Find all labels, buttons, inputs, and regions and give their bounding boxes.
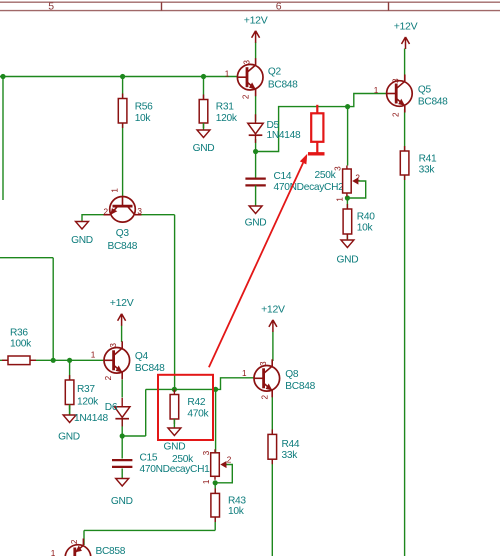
pin 1 of Q2 xyxy=(225,69,230,78)
wire R56 branch to Q3 base xyxy=(122,77,124,197)
svg-text:BC848: BC848 xyxy=(418,96,448,107)
svg-text:2: 2 xyxy=(227,456,232,465)
svg-text:BC848: BC848 xyxy=(135,363,165,374)
annotation arrow to moved resistor xyxy=(209,154,307,367)
junction node R37 top xyxy=(67,358,72,363)
pin 3 of Q3 xyxy=(137,207,142,216)
svg-text:10k: 10k xyxy=(357,223,374,234)
wire junction down to pot RV CH1 xyxy=(215,389,217,452)
svg-text:2: 2 xyxy=(355,174,360,183)
wire Q8 emitter to R44 xyxy=(271,392,273,435)
svg-text:1: 1 xyxy=(111,188,120,193)
svg-text:GND: GND xyxy=(245,218,267,229)
resistor R56 xyxy=(118,94,153,129)
power +12V Q5 xyxy=(394,20,418,49)
sheet column label 5 xyxy=(48,1,54,13)
wire pot CH1 to R43 xyxy=(214,483,216,494)
pin 3 of Q8 xyxy=(259,361,268,366)
pin 3 of Q5 xyxy=(392,78,401,83)
wire D6 to C15 xyxy=(121,419,123,459)
pin 3 of pot CH1 xyxy=(202,450,211,455)
svg-text:1N4148: 1N4148 xyxy=(74,413,109,424)
svg-text:1N4148: 1N4148 xyxy=(267,130,302,141)
svg-text:Q5: Q5 xyxy=(418,85,432,96)
pin 2 of Q2 xyxy=(242,94,251,99)
svg-text:R56: R56 xyxy=(135,102,153,113)
junction node CH1 wiper xyxy=(213,480,218,485)
svg-text:3: 3 xyxy=(392,78,401,83)
pin 1 of Q4 xyxy=(91,351,96,360)
capacitor C14 xyxy=(245,171,344,193)
svg-text:R31: R31 xyxy=(216,102,234,113)
pin 3 of pot CH2 xyxy=(334,166,343,171)
junction node D6-C15 xyxy=(120,433,125,438)
svg-text:33k: 33k xyxy=(419,164,436,175)
resistor R40 xyxy=(343,204,375,239)
transistor Q8 xyxy=(254,359,316,397)
svg-text:470NDecayCH2: 470NDecayCH2 xyxy=(274,182,345,193)
wire R44 down to bottom edge xyxy=(271,459,273,556)
wire Q4 +12V stem xyxy=(121,326,123,343)
junction node Q5 base xyxy=(345,104,350,109)
transistor Q4 xyxy=(104,341,165,379)
svg-text:1: 1 xyxy=(91,351,96,360)
wire R42 top link xyxy=(174,388,215,390)
moving resistor (dragged, highlighted) xyxy=(308,105,325,154)
svg-text:GND: GND xyxy=(71,235,93,246)
svg-text:C15: C15 xyxy=(140,453,158,464)
svg-text:3: 3 xyxy=(334,166,343,171)
pin 1 of Q8 xyxy=(242,369,247,378)
potentiometer RV CH2 250k xyxy=(315,166,359,197)
wire pot CH2 wiper loop xyxy=(347,181,365,198)
pin 2 of Q10 xyxy=(70,539,79,544)
pin 2 of Q3 xyxy=(104,208,109,217)
svg-text:BC848: BC848 xyxy=(285,381,315,392)
wire R31 branch xyxy=(203,77,205,100)
junction node B xyxy=(120,74,125,79)
power +12V Q8 xyxy=(261,303,285,332)
resistor R41 xyxy=(400,146,437,180)
wire Q8 +12V stem xyxy=(272,332,274,362)
svg-text:1: 1 xyxy=(374,86,379,95)
svg-text:1: 1 xyxy=(225,69,230,78)
ground below R40 xyxy=(337,240,359,265)
resistor R37 xyxy=(65,375,99,410)
ground Q3 emitter xyxy=(71,222,93,247)
pin 2 of Q5 xyxy=(392,112,401,117)
svg-text:470NDecayCH1: 470NDecayCH1 xyxy=(140,464,211,475)
svg-text:2: 2 xyxy=(104,375,113,380)
pin 1 of pot CH2 xyxy=(335,197,344,202)
svg-text:GND: GND xyxy=(337,254,359,265)
svg-text:+12V: +12V xyxy=(261,303,285,315)
junction node R42 right xyxy=(213,387,218,392)
junction node CH2 wiper xyxy=(345,195,350,200)
svg-text:R42: R42 xyxy=(187,397,205,408)
wire D6 junction to R42 junction xyxy=(122,389,174,436)
ground below C15 xyxy=(111,479,133,508)
capacitor C15 xyxy=(112,453,210,475)
transistor Q2 xyxy=(237,58,298,96)
sheet column label 6 xyxy=(276,1,282,13)
pin 2 of pot CH1 xyxy=(227,456,232,465)
wire D5 to C14 xyxy=(255,139,257,179)
pin 3 of Q2 xyxy=(243,60,252,65)
svg-text:2: 2 xyxy=(260,394,269,399)
svg-text:3: 3 xyxy=(243,60,252,65)
transistor Q5 xyxy=(387,75,449,113)
ground below R42 xyxy=(164,419,186,453)
svg-text:2: 2 xyxy=(104,208,109,217)
svg-text:120k: 120k xyxy=(77,396,99,407)
svg-text:100k: 100k xyxy=(10,338,32,349)
svg-text:Q2: Q2 xyxy=(268,67,282,78)
wire Q4 emitter to D6 xyxy=(121,380,123,398)
pin 2 of Q4 xyxy=(104,375,113,380)
junction node R42 top xyxy=(172,387,177,392)
resistor R43 xyxy=(211,488,247,522)
junction node D5-C14 xyxy=(253,149,258,154)
wire Q5 emitter to R41 xyxy=(404,109,406,151)
resistor R36 xyxy=(2,327,36,364)
svg-text:R44: R44 xyxy=(282,439,300,450)
svg-text:1: 1 xyxy=(335,197,344,202)
svg-text:250k: 250k xyxy=(172,454,194,465)
svg-text:Q3: Q3 xyxy=(116,228,130,239)
pin 3 of Q4 xyxy=(109,343,118,348)
wire R43 to Q10 base run xyxy=(84,517,215,545)
annotation selection box around R42 xyxy=(158,375,213,440)
junction node C xyxy=(201,74,206,79)
svg-text:D6: D6 xyxy=(105,402,118,413)
svg-text:R40: R40 xyxy=(357,212,375,223)
svg-text:R37: R37 xyxy=(77,384,95,395)
ground below C14 xyxy=(245,185,267,228)
transistor Q3 xyxy=(104,197,142,253)
svg-text:Q8: Q8 xyxy=(285,369,299,380)
svg-text:BC848: BC848 xyxy=(268,79,298,90)
svg-text:6: 6 xyxy=(276,1,282,13)
wire pot CH2 to R40 to GND xyxy=(346,197,348,241)
resistor R31 xyxy=(199,95,238,129)
junction node R36 right xyxy=(51,358,56,363)
wire R36 to Q4 base xyxy=(0,359,104,361)
wire left edge drop xyxy=(2,77,4,201)
wire pot CH1 wiper loop xyxy=(215,465,232,483)
ground below R31 xyxy=(193,123,215,154)
wire D5 junction to Q5 base xyxy=(256,94,387,152)
wire bus to Q2 base xyxy=(0,76,238,78)
pin 2 of Q8 xyxy=(260,394,269,399)
wire R41 down to bottom edge xyxy=(404,175,406,556)
power +12V Q2 xyxy=(244,15,268,43)
svg-text:120k: 120k xyxy=(216,113,238,124)
svg-text:GND: GND xyxy=(193,143,215,154)
diode D5 xyxy=(248,114,301,143)
svg-text:R43: R43 xyxy=(228,495,246,506)
junction node A xyxy=(0,74,5,79)
wire Q3 collector to R42 junction xyxy=(135,215,175,390)
transistor Q10 BC858 xyxy=(65,539,126,556)
svg-text:1: 1 xyxy=(242,369,247,378)
svg-text:3: 3 xyxy=(202,450,211,455)
svg-text:+12V: +12V xyxy=(394,20,418,32)
svg-text:+12V: +12V xyxy=(110,297,134,309)
wire Q5 +12V stem xyxy=(404,49,406,82)
pin 1 of pot CH1 xyxy=(202,479,211,484)
wire junction to Q8 base xyxy=(216,378,254,390)
wire Q2 collector to +12V xyxy=(255,42,257,59)
svg-text:3: 3 xyxy=(109,343,118,348)
pin 2 of pot CH2 xyxy=(355,174,360,183)
pin 1 of Q10 xyxy=(51,549,56,556)
svg-text:33k: 33k xyxy=(282,450,299,461)
sheet border frame top lines xyxy=(0,2,500,10)
svg-text:5: 5 xyxy=(48,1,54,13)
wire Q2 emitter to D5 xyxy=(255,96,257,121)
svg-text:GND: GND xyxy=(111,496,133,507)
potentiometer RV CH1 250k xyxy=(172,449,227,480)
svg-text:1: 1 xyxy=(51,549,56,556)
wire C15 to GND stub xyxy=(121,469,123,479)
pin 1 of Q5 xyxy=(374,86,379,95)
diode D6 xyxy=(74,398,130,427)
resistor R42 xyxy=(170,390,209,425)
svg-text:3: 3 xyxy=(259,361,268,366)
pin 1 of Q3 xyxy=(111,188,120,193)
svg-text:BC848: BC848 xyxy=(107,241,137,252)
wire Q3 emitter to GND xyxy=(82,215,110,222)
svg-text:R41: R41 xyxy=(419,154,437,165)
svg-text:BC858: BC858 xyxy=(96,546,126,556)
svg-text:+12V: +12V xyxy=(244,15,268,27)
svg-text:1: 1 xyxy=(202,479,211,484)
svg-text:10k: 10k xyxy=(135,113,152,124)
wire R37 branch xyxy=(69,360,71,415)
svg-text:GND: GND xyxy=(164,442,186,453)
svg-text:3: 3 xyxy=(137,207,142,216)
svg-text:470k: 470k xyxy=(187,408,209,419)
wire upper left branch xyxy=(0,258,53,361)
svg-text:Q4: Q4 xyxy=(135,351,149,362)
power +12V Q4 xyxy=(110,297,134,326)
svg-text:GND: GND xyxy=(58,432,80,443)
svg-text:R36: R36 xyxy=(10,327,28,338)
svg-text:C14: C14 xyxy=(274,171,292,182)
svg-text:2: 2 xyxy=(242,94,251,99)
ground below R37 xyxy=(58,405,80,443)
svg-text:10k: 10k xyxy=(228,506,245,517)
resistor R44 xyxy=(268,429,300,464)
svg-text:2: 2 xyxy=(392,112,401,117)
svg-text:2: 2 xyxy=(70,539,79,544)
wire Q5 base junction down to pot RV CH2 xyxy=(347,107,349,166)
